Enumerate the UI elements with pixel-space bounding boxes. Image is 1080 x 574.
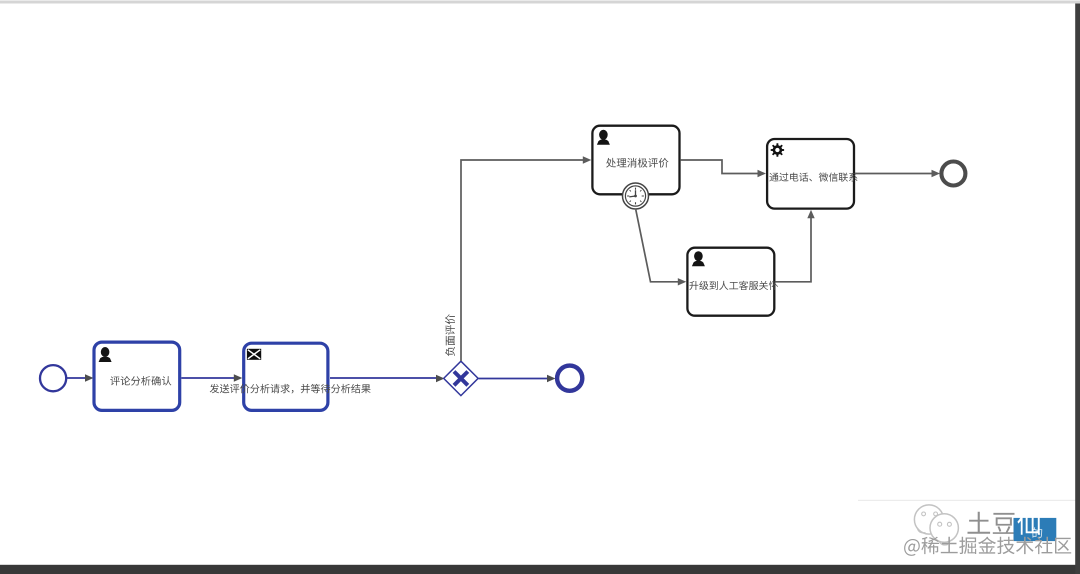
user task 升级到人工客服关怀: [687, 248, 774, 316]
label 评论分析确认: [110, 376, 171, 386]
wire gateway to end event: [479, 378, 548, 380]
wire 通过电话 to final end: [855, 173, 931, 175]
wire task1 to task2: [181, 377, 234, 379]
wire gateway up to 处理消极评价: [461, 160, 583, 361]
wire 升级 to 通过电话 bottom: [775, 218, 811, 282]
wire task2 to gateway: [330, 377, 436, 379]
wire timer to 升级到人工客服关怀: [636, 210, 678, 282]
person icon 处理消极评价: [597, 130, 610, 145]
person icon 升级: [692, 251, 705, 266]
label 升级到人工客服关怀: [689, 281, 778, 290]
person icon task1: [99, 347, 112, 362]
watermark text 仙 (white): [1017, 512, 1039, 535]
top border line: [0, 1, 1080, 4]
start event: [40, 365, 66, 391]
small white glyph 的: [1033, 527, 1043, 537]
watermark text 土豆: [968, 512, 1016, 534]
gateway X marker: [454, 372, 468, 386]
label 通过电话、微信联系: [769, 173, 857, 182]
right scrollbar: [1075, 4, 1080, 574]
wire 处理消极评价 to 通过电话: [681, 160, 758, 174]
exclusive gateway: [444, 361, 478, 395]
send task box: [244, 343, 328, 410]
watermark blue box: [1014, 518, 1057, 541]
watermark separator line: [858, 500, 1080, 501]
gear icon: [771, 143, 784, 156]
label 处理消极评价: [606, 158, 668, 168]
wire start to task1: [67, 377, 85, 379]
envelope icon: [247, 349, 261, 360]
watermark mascot bubbles: [914, 505, 958, 545]
final end event: [941, 162, 965, 186]
timer boundary event: [623, 183, 649, 209]
watermark @稀土掘金技术社区: [904, 537, 1071, 556]
service task 通过电话、微信联系: [767, 139, 854, 209]
bottom dark bar: [0, 565, 1080, 574]
user task 评论分析确认: [94, 342, 180, 410]
end event (highlighted): [557, 366, 582, 391]
user task 处理消极评价: [592, 126, 679, 195]
label 发送评价分析请求，并等待分析结果: [210, 384, 371, 394]
flow label 负面评价 (rotated): [445, 314, 455, 356]
